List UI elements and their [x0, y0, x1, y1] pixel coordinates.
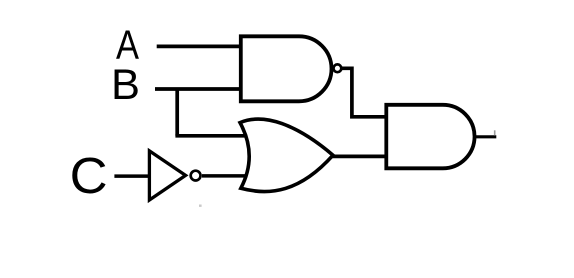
AND gate U4 body [386, 105, 474, 169]
wire NAND output to AND input [342, 68, 388, 117]
wire AND output [474, 135, 496, 138]
wire B branch to OR input [175, 134, 247, 138]
wire C to inverter input [114, 174, 150, 178]
NAND gate U1 output bubble [334, 64, 342, 72]
node B label [111, 62, 140, 109]
OR gate U3 body [240, 119, 333, 191]
output wire end tick [494, 130, 496, 135]
node A label [116, 22, 140, 68]
wire B branch vertical [175, 89, 179, 136]
inverter U2 (NOT gate on C) [149, 151, 185, 200]
wire A to NAND input [157, 45, 243, 49]
stray scan speck below inverter bubble [199, 205, 202, 207]
wire inverter output to OR input [202, 174, 249, 178]
node C label [70, 147, 108, 204]
svg-text:A: A [116, 22, 140, 68]
wire B to NAND input [155, 87, 243, 91]
NAND gate U1 body [241, 36, 332, 101]
svg-text:C: C [70, 147, 108, 204]
svg-text:B: B [111, 62, 140, 109]
inverter U2 output bubble [191, 171, 201, 181]
wire OR output to AND input [333, 155, 389, 159]
